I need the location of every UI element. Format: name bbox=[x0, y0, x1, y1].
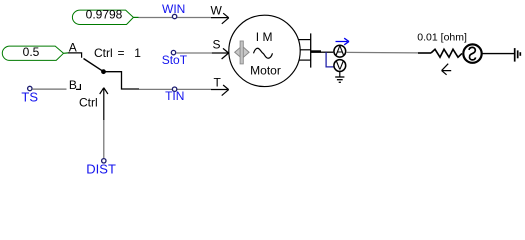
wire from switch common to T wire bbox=[105, 72, 139, 89]
wire S horizontal bbox=[176, 52, 212, 54]
svg-text:WIN: WIN bbox=[162, 2, 185, 16]
wire stub green from pennant bbox=[133, 16, 138, 18]
resistor R1 zigzag bbox=[431, 49, 462, 57]
wire from source to ground bbox=[482, 53, 514, 55]
machine shaft symbol (gray) bbox=[235, 41, 249, 64]
svg-text:A: A bbox=[335, 43, 344, 58]
svg-text:B: B bbox=[69, 78, 77, 92]
wire to ammeter bbox=[321, 51, 333, 53]
node WIN diamond bbox=[172, 14, 176, 18]
wire DIST vertical bbox=[103, 120, 105, 160]
source V2 circle bbox=[463, 44, 481, 62]
wire to switch contact A bbox=[68, 53, 82, 58]
node StoT diamond bbox=[171, 50, 175, 54]
svg-text:0.01 [ohm]: 0.01 [ohm] bbox=[417, 31, 467, 43]
svg-text:TIN: TIN bbox=[165, 89, 184, 103]
ammeter A1 circle bbox=[334, 45, 346, 57]
ground under voltmeter bbox=[335, 77, 344, 82]
arrow into S port bbox=[222, 48, 229, 59]
wire TS to switch contact B bbox=[32, 88, 66, 90]
resistor R1 lead bbox=[418, 52, 431, 54]
switch common junction dot bbox=[101, 69, 106, 74]
wire stub green from pennant 0.5 bbox=[64, 52, 69, 54]
resistor direction arrow bbox=[442, 64, 452, 75]
svg-text:Motor: Motor bbox=[250, 63, 281, 77]
induction machine M1 circle bbox=[229, 15, 300, 86]
node TIN diamond bbox=[172, 87, 176, 91]
control arrow up bbox=[100, 88, 108, 120]
breakout bus bar bbox=[310, 33, 312, 67]
svg-text:A: A bbox=[69, 40, 77, 54]
wire T horizontal bbox=[139, 88, 211, 90]
ground (rotated right) bbox=[515, 48, 521, 62]
source sine (vertical) bbox=[469, 47, 476, 60]
svg-text:S: S bbox=[213, 38, 221, 52]
machine sine symbol bbox=[254, 48, 273, 58]
svg-text:1: 1 bbox=[134, 46, 141, 60]
switch contact B bracket bbox=[76, 84, 80, 89]
svg-text:V: V bbox=[335, 57, 344, 72]
main wire to resistor bbox=[346, 51, 418, 54]
svg-text:0.9798: 0.9798 bbox=[86, 8, 123, 22]
node TS diamond bbox=[28, 86, 32, 90]
node DIST diamond bbox=[102, 159, 106, 163]
thick single-line stub bbox=[311, 50, 321, 53]
voltmeter tap wire bbox=[326, 52, 333, 67]
signal source pennant 0.9798 bbox=[72, 8, 133, 25]
wire W horizontal bbox=[139, 17, 212, 19]
3-phase output stubs bbox=[298, 39, 310, 41]
arrow into T port bbox=[222, 85, 229, 96]
svg-text:W: W bbox=[211, 3, 223, 17]
svg-text:DIST: DIST bbox=[86, 161, 116, 176]
voltmeter ground stub bbox=[339, 72, 341, 77]
current direction arrow (blue) bbox=[336, 38, 350, 45]
svg-text:T: T bbox=[214, 76, 222, 90]
svg-text:I M: I M bbox=[256, 30, 273, 44]
svg-text:Ctrl: Ctrl bbox=[94, 46, 113, 60]
svg-text:Ctrl: Ctrl bbox=[79, 95, 98, 109]
svg-text:TS: TS bbox=[21, 89, 38, 104]
arrow into W port bbox=[222, 13, 229, 24]
voltmeter V1 circle bbox=[334, 60, 346, 72]
signal source pennant 0.5 bbox=[2, 45, 63, 60]
svg-text:=: = bbox=[118, 46, 125, 60]
svg-text:StoT: StoT bbox=[162, 53, 188, 67]
switch blade bbox=[84, 59, 104, 72]
svg-text:0.5: 0.5 bbox=[23, 45, 40, 59]
